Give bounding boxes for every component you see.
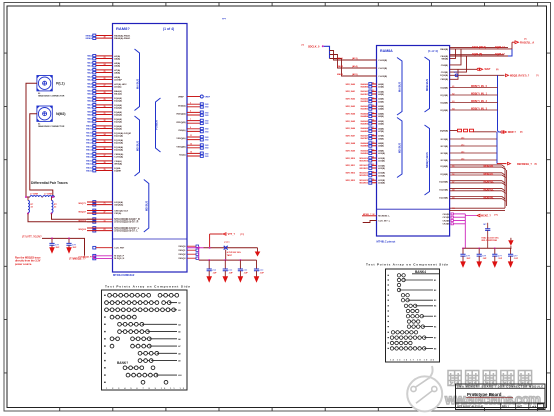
svg-text:DQ10(B): DQ10(B)	[439, 182, 448, 184]
svg-text:CS1(B): CS1(B)	[441, 72, 449, 74]
svg-text:MA16/: MA16/	[86, 169, 93, 172]
U1 left pin pair S?(A) DQ(31:16)-S?_L with external wire	[79, 227, 140, 233]
svg-text:MDB44L: MDB44L	[484, 196, 495, 200]
svg-text:L? 10NH: L? 10NH	[44, 194, 53, 196]
U1 right pin pair VDD(A)	[178, 103, 209, 109]
SMA edge connector P(L1)	[37, 76, 65, 98]
U1 left pin pair A9(A) pins 26	[87, 76, 122, 82]
wire VSSQ bus 2	[199, 259, 257, 261]
svg-text:.1UF: .1UF	[482, 258, 487, 260]
svg-text:C???: C???	[224, 242, 230, 244]
svg-text:RAM8A: RAM8A	[380, 49, 393, 53]
svg-text:MDB(?) BUS: MDB(?) BUS	[425, 152, 429, 168]
net label VTT 3.3V feed	[22, 236, 42, 239]
svg-text:38: 38	[104, 37, 106, 39]
decoupling capacitor C30 with ground	[206, 260, 217, 283]
U1 left pin pair LDQS(A) with external wire	[79, 201, 124, 207]
svg-text:SDR_MD0: SDR_MD0	[345, 158, 355, 160]
svg-text:VTT_?: VTT_?	[228, 233, 236, 236]
svg-text:MDQ71/: MDQ71/	[79, 203, 87, 205]
svg-text:MA4/: MA4/	[87, 83, 92, 86]
wire VSSQ bus 1 (magenta then dark red)	[187, 247, 258, 249]
svg-text:MA9/B9: MA9/B9	[361, 152, 369, 155]
svg-text:SMA EDGE CONNECTOR: SMA EDGE CONNECTOR	[38, 125, 65, 128]
svg-text:A3(B): A3(B)	[378, 100, 384, 103]
TB2 test point row 3	[388, 283, 401, 286]
svg-text:19: 19	[104, 220, 106, 222]
svg-text:MA4/B4: MA4/B4	[361, 115, 369, 118]
svg-text:A8(B): A8(B)	[378, 137, 384, 140]
svg-text:47: 47	[104, 211, 106, 214]
svg-text:MD2/B12: MD2/B12	[360, 175, 369, 177]
TB1 test point row 13	[104, 380, 168, 384]
svg-text:3RD OVERTONE: 3RD OVERTONE	[481, 240, 497, 242]
svg-text:MA9/: MA9/	[87, 120, 92, 123]
svg-text:MDQ63/: MDQ63/	[79, 229, 87, 231]
svg-text:A10/AP: A10/AP	[114, 78, 122, 81]
svg-text:SDR_MA0: SDR_MA0	[345, 83, 355, 86]
svg-text:MD1/B11: MD1/B11	[360, 168, 369, 170]
svg-text:UDQS(A): UDQS(A)	[114, 204, 123, 207]
svg-text:MA3/A3: MA3/A3	[361, 105, 369, 108]
TB1 test point row 11	[104, 366, 155, 370]
U1 right pin pair VSSQ(A)	[176, 135, 209, 141]
svg-text:.1UF: .1UF	[228, 273, 233, 275]
svg-text:3V3/: 3V3/	[205, 140, 210, 142]
svg-text:SDR_MA8: SDR_MA8	[345, 142, 355, 145]
svg-text:A7(B): A7(B)	[378, 130, 384, 133]
U2 bottom magenta pins MCKE	[443, 213, 466, 248]
svg-text:MDB43L: MDB43L	[484, 188, 495, 192]
svg-text:DQ3(A): DQ3(A)	[114, 106, 122, 109]
svg-text:3: 3	[190, 103, 191, 105]
svg-text:L? 10NH: L? 10NH	[30, 194, 39, 196]
svg-text:MA9/A9: MA9/A9	[361, 149, 369, 152]
capacitor C20 on bus	[224, 242, 241, 260]
svg-text:CLK0(B): CLK0(B)	[378, 60, 387, 62]
svg-text:MA3/: MA3/	[87, 78, 92, 81]
TB1 test point row 3	[104, 308, 180, 312]
U1 left pin pair DQML pins 39	[86, 167, 121, 173]
svg-text:A9: A9	[178, 360, 180, 363]
svg-text:5: 5	[190, 111, 191, 113]
svg-text:MA0/: MA0/	[87, 57, 92, 60]
svg-text:Prototype Board: Prototype Board	[467, 392, 502, 397]
svg-text:CKE(B): CKE(B)	[440, 79, 448, 81]
TB2 test point row 13	[388, 336, 437, 340]
off-page arrow REFRESH	[497, 162, 537, 166]
svg-text:MCKE80_L: MCKE80_L	[378, 216, 390, 218]
svg-text:NC3(B): NC3(B)	[441, 160, 449, 162]
U2 left pin pair MA2	[345, 97, 384, 103]
svg-text:26: 26	[104, 78, 106, 80]
off-page arrow WAIT	[450, 68, 499, 71]
U1 left pin pair DQ6(A) pins 32	[87, 118, 122, 124]
svg-text:MA6/: MA6/	[87, 97, 92, 100]
TB2 test point row 10	[388, 320, 420, 323]
svg-text:A11(A) /A12: A11(A) /A12	[114, 83, 127, 86]
svg-text:CS0(A): CS0(A)	[114, 160, 122, 163]
svg-text:63: 63	[104, 229, 106, 231]
svg-text:SMA EDGE CONNECTOR: SMA EDGE CONNECTOR	[38, 95, 65, 98]
U2 left pin pair MA0	[345, 83, 384, 89]
U2 fanout net label MA12	[337, 65, 387, 70]
svg-text:39: 39	[104, 169, 106, 171]
svg-text:MDB42L: MDB42L	[484, 180, 495, 184]
U1 left pin pair A7(A) pins 25	[87, 69, 120, 75]
wire from P(L1) down the left side	[26, 83, 37, 197]
svg-text:DQ0(B): DQ0(B)	[440, 87, 448, 89]
U1 MDQS differential pin pair (magenta wires)	[79, 254, 125, 260]
svg-text:(A15): (A15)	[352, 73, 358, 76]
svg-text:MA2/B2: MA2/B2	[361, 100, 369, 103]
power arrow into cap bus	[508, 238, 513, 249]
svg-text:(8): (8)	[520, 132, 523, 134]
svg-text:61: 61	[452, 86, 454, 88]
U1 left pin pair DQ4(A) pins 31	[87, 111, 122, 117]
svg-text:19: 19	[372, 142, 374, 144]
U2 left pin pair MD3	[345, 178, 385, 185]
svg-text:DQ11(B): DQ11(B)	[439, 190, 448, 192]
svg-text:A6(B): A6(B)	[378, 127, 384, 130]
svg-text:56: 56	[452, 174, 454, 176]
svg-text:3V3/: 3V3/	[205, 131, 210, 133]
svg-text:A8: A8	[178, 352, 180, 355]
svg-text:CK3(B): CK3(B)	[443, 224, 450, 226]
svg-text:A0(B): A0(B)	[378, 83, 384, 86]
TB2 test point row 2	[388, 278, 437, 282]
U1 left pin pair DQ0(A) pins 29	[87, 97, 122, 103]
svg-text:A6: A6	[178, 338, 180, 341]
svg-text:BANK?: BANK?	[117, 361, 128, 365]
svg-text:9: 9	[190, 127, 191, 129]
svg-text:DQMH: DQMH	[114, 170, 121, 172]
svg-text:15: 15	[372, 112, 374, 114]
U2 decoupling capacitor C40 with ground	[460, 248, 471, 268]
svg-text:.1UF: .1UF	[243, 273, 248, 275]
svg-text:VSSQ(B): VSSQ(B)	[176, 146, 185, 148]
svg-text:MA0/B0: MA0/B0	[361, 85, 369, 88]
svg-text:MT48LC16M16A2: MT48LC16M16A2	[113, 273, 135, 277]
TB1 BANK label	[117, 361, 128, 365]
svg-text:11: 11	[372, 83, 374, 85]
memory IC U2 RAM8A body	[377, 46, 450, 244]
svg-text:(??) VTT_?/3.3V?: (??) VTT_?/3.3V?	[22, 236, 42, 239]
svg-text:SDR_MA2: SDR_MA2	[345, 98, 355, 101]
svg-text:31: 31	[104, 113, 106, 115]
svg-text:REFRESH_?: REFRESH_?	[517, 163, 532, 166]
TB2 test point row 6	[388, 299, 437, 303]
svg-text:REV 1: REV 1	[502, 406, 510, 409]
svg-text:38: 38	[104, 162, 106, 164]
svg-text:A5(A): A5(A)	[114, 62, 120, 65]
blue vertical bus right of U2	[498, 75, 502, 132]
ground arrow at end of bus 1	[255, 248, 261, 257]
svg-text:MA7/A7: MA7/A7	[361, 135, 369, 138]
svg-text:MA4/A4: MA4/A4	[361, 112, 369, 115]
svg-text:(4): (4)	[535, 162, 538, 165]
svg-text:Test Points Array on Component: Test Points Array on Component Side	[366, 263, 448, 267]
svg-text:NC0(B): NC0(B)	[441, 139, 449, 141]
svg-text:SDR_MA1: SDR_MA1	[345, 90, 355, 93]
svg-text:58: 58	[452, 190, 454, 192]
svg-text:A6(B): A6(B)	[378, 123, 384, 126]
svg-text:DQ15(A): DQ15(A)	[114, 148, 123, 151]
svg-text:RAS0(A) /RAS1: RAS0(A) /RAS1	[114, 37, 131, 40]
svg-text:MD3/A13: MD3/A13	[360, 179, 369, 182]
TB2 test point row 15	[388, 347, 437, 351]
wire 3.3V bus	[42, 237, 85, 255]
U2 right staircase wires to RAS/CAS runs	[440, 49, 466, 81]
svg-text:7: 7	[190, 119, 191, 121]
svg-text:3V3/: 3V3/	[205, 148, 210, 150]
svg-text:TP?: TP?	[222, 19, 227, 21]
svg-text:MA16/: MA16/	[86, 167, 93, 170]
svg-text:CLK_FB?: CLK_FB?	[114, 248, 125, 250]
svg-text:NC1(B): NC1(B)	[441, 146, 449, 148]
svg-text:DQM(B): DQM(B)	[440, 130, 448, 132]
U2 left pin pair MA5	[345, 120, 384, 126]
svg-text:TANT: TANT	[227, 254, 233, 257]
svg-text:.1UF: .1UF	[498, 258, 503, 260]
svg-text:M DQS_N: M DQS_N	[114, 258, 124, 260]
svg-text:33: 33	[104, 127, 106, 129]
svg-text:35: 35	[104, 141, 106, 143]
svg-text:1 of 4: 1 of 4	[530, 406, 537, 409]
memory IC U1 RAM8 body	[113, 24, 188, 278]
svg-text:MDQ47/: MDQ47/	[79, 211, 87, 214]
svg-text:16: 16	[372, 120, 374, 122]
svg-text:CK0(B): CK0(B)	[443, 214, 450, 216]
svg-text:VSSQ(A): VSSQ(A)	[176, 137, 185, 140]
svg-text:MA8/B8: MA8/B8	[361, 145, 369, 148]
svg-text:DQ8(A): DQ8(A)	[114, 125, 122, 128]
TB2 test point row 9	[388, 315, 437, 319]
svg-text:30: 30	[104, 106, 106, 108]
svg-text:A8(A): A8(A)	[114, 71, 120, 74]
U1 left pin pair DQ14(A) pins 36	[86, 146, 123, 152]
svg-text:17: 17	[372, 127, 374, 129]
svg-text:MA7/: MA7/	[87, 104, 92, 107]
svg-text:CS1(A): CS1(A)	[114, 212, 121, 215]
svg-text:A10(B): A10(B)	[378, 157, 385, 160]
svg-text:23: 23	[104, 57, 106, 59]
svg-text:57: 57	[452, 182, 454, 184]
svg-text:SDR_MA6: SDR_MA6	[345, 127, 355, 130]
svg-text:(??): (??)	[240, 234, 244, 236]
U2 right wire CAS row	[440, 53, 508, 58]
svg-text:DQ1(A): DQ1(A)	[114, 99, 122, 102]
U2 left pin pair MA9	[345, 149, 385, 155]
svg-text:MCKE_?: MCKE_?	[481, 215, 491, 218]
U2 bracket data group	[397, 118, 402, 178]
TB1 test point row 10	[104, 359, 180, 363]
svg-text:XTAL CLOCK OSC: XTAL CLOCK OSC	[481, 237, 499, 240]
svg-text:MA15/: MA15/	[86, 162, 93, 165]
test point TP on MDQS wire and off-page arrow	[440, 72, 539, 77]
svg-text:VDD(A): VDD(A)	[178, 104, 186, 107]
U1 control bus bracket C	[144, 180, 149, 233]
svg-text:A8(B): A8(B)	[378, 142, 384, 145]
svg-text:A11(B): A11(B)	[378, 164, 385, 167]
svg-text:DQ0(A): DQ0(A)	[114, 97, 122, 100]
svg-text:SHT: SHT	[517, 406, 522, 409]
svg-text:MDB40L: MDB40L	[484, 164, 495, 168]
svg-text:VSSQ0: VSSQ0	[178, 246, 186, 248]
svg-text:CLK0(A): CLK0(A)	[114, 155, 123, 158]
svg-text:DQ84 (B): DQ84 (B)	[472, 53, 482, 56]
svg-text:MA3/B3: MA3/B3	[361, 108, 369, 111]
svg-text:14: 14	[372, 104, 374, 107]
U1 left pin pair CKE0(A) pins 37	[86, 153, 123, 159]
svg-text:NC2(B): NC2(B)	[441, 153, 449, 155]
svg-text:DQ8(B): DQ8(B)	[440, 166, 448, 168]
U2 left pin pair MA8	[345, 142, 384, 148]
svg-text:3V3/: 3V3/	[205, 107, 210, 109]
svg-text:MA6/: MA6/	[87, 99, 92, 102]
svg-text:A11(B): A11(B)	[378, 160, 385, 163]
svg-text:MA12/: MA12/	[86, 139, 93, 142]
svg-text:MA2/: MA2/	[87, 71, 92, 74]
TB1 test point row 7	[104, 337, 180, 341]
svg-text:(A13): (A13)	[352, 57, 358, 60]
U1 left pin pair BA0(A) pins 28	[87, 90, 122, 96]
svg-text:SDCLK_0: SDCLK_0	[308, 46, 320, 49]
svg-text:A13(B): A13(B)	[378, 174, 385, 177]
svg-text:MDB(?)_ML_2: MDB(?)_ML_2	[471, 100, 488, 103]
svg-text:MA9/: MA9/	[87, 118, 92, 121]
svg-text:.1UF: .1UF	[212, 273, 217, 275]
wire from N(M2) down and across	[30, 114, 53, 197]
shunt inductor L3 (vertical left)	[27, 197, 34, 215]
svg-text:(1 of 4): (1 of 4)	[428, 49, 438, 53]
U2 left pin pair MD0	[345, 157, 385, 163]
svg-text:SIZE B DOC 45-2311-01: SIZE B DOC 45-2311-01	[457, 406, 484, 409]
svg-text:MA2/A2: MA2/A2	[361, 98, 369, 101]
TB1 test point row 12	[104, 373, 181, 377]
TB2 test point row 4	[388, 288, 437, 292]
svg-text:DQ7(A): DQ7(A)	[114, 120, 122, 123]
svg-text:A10: A10	[178, 374, 181, 377]
U1 left pin pair CKE1(A) /CLK with external wire	[79, 209, 129, 215]
svg-text:MA1/B1: MA1/B1	[361, 93, 369, 96]
svg-text:(?): (?)	[302, 44, 305, 46]
watermark chinese characters	[448, 371, 532, 387]
svg-text:28: 28	[104, 92, 106, 94]
U2 left pin pair MA6	[345, 127, 384, 133]
svg-text:SDR_MD3: SDR_MD3	[345, 180, 355, 182]
svg-text:MA0/A0: MA0/A0	[361, 83, 369, 86]
test point label above U1	[222, 19, 227, 21]
svg-text:MA13/: MA13/	[86, 148, 93, 151]
U2 bottom-left MCKE pin	[362, 214, 390, 218]
svg-text:(8): (8)	[496, 69, 499, 71]
U2 bracket address group	[397, 58, 402, 116]
svg-text:MA14/: MA14/	[86, 155, 93, 158]
U2 bottom-left elbow wire	[363, 221, 391, 223]
title block	[456, 384, 546, 410]
svg-text:A7: A7	[178, 345, 180, 348]
TB1 test point row 6	[104, 330, 180, 334]
svg-text:22: 22	[372, 164, 374, 166]
svg-text:A5(B): A5(B)	[378, 120, 384, 123]
U2 fanout net label MA13	[337, 73, 387, 78]
svg-text:DQ1(B): DQ1(B)	[440, 95, 448, 97]
svg-text:SDR_MA7: SDR_MA7	[345, 135, 355, 138]
U2 right wire RAS row (long run to top right)	[440, 42, 512, 56]
svg-text:MA12/: MA12/	[86, 141, 93, 144]
svg-text:MA BUS: MA BUS	[398, 82, 402, 92]
svg-text:MA11: MA11	[337, 57, 343, 60]
TB1 test point row 4	[104, 315, 136, 319]
TB1 test point row 1	[104, 293, 178, 297]
svg-text:37: 37	[104, 155, 106, 157]
U1 left pin pair DQ2(A) pins 30	[87, 104, 122, 110]
svg-text:B3: B3	[434, 300, 436, 302]
U2 resistor network row	[440, 129, 523, 134]
svg-text:A13(A): A13(A)	[114, 85, 121, 88]
Differential Pair Traces label	[31, 181, 68, 185]
U1 clock pin MCLK row	[93, 246, 125, 249]
svg-text:MD1/A11: MD1/A11	[360, 164, 369, 167]
svg-text:A3: A3	[178, 309, 180, 312]
TB2 test point row 11	[388, 325, 437, 329]
svg-text:POWER: POWER	[154, 120, 158, 130]
svg-text:VSSQ1: VSSQ1	[178, 250, 186, 252]
U2 left pin pair MD2	[345, 171, 385, 177]
svg-text:DQ11(A): DQ11(A)	[114, 134, 123, 137]
svg-text:24: 24	[104, 63, 106, 66]
svg-text:23: 23	[372, 172, 374, 174]
series inductor L1 (horizontal) with junction dots	[25, 194, 42, 199]
svg-text:34: 34	[104, 133, 106, 136]
crystal clock cap N1	[481, 223, 499, 249]
svg-text:MA5/B5: MA5/B5	[361, 122, 369, 125]
TB1 test point row 5	[104, 322, 181, 326]
svg-text:(?): (?)	[536, 75, 539, 77]
svg-text:(??): (??)	[494, 215, 498, 217]
svg-text:(1 of 4): (1 of 4)	[163, 27, 174, 31]
TB2 test point row 7	[388, 304, 437, 308]
svg-text:A1: A1	[38, 92, 40, 95]
svg-text:MA8/: MA8/	[87, 113, 92, 116]
svg-text:A1(B): A1(B)	[378, 90, 384, 93]
TB2 test point row 8	[388, 309, 419, 312]
svg-text:MA8/: MA8/	[87, 111, 92, 114]
U2 left pin pair MA1	[345, 90, 384, 96]
svg-text:3V3/: 3V3/	[205, 115, 210, 117]
svg-text:SMA MEMORY BOARD / DDR CONNECT: SMA MEMORY BOARD / DDR CONNECTOR MODULE	[457, 386, 543, 389]
svg-text:(??)/MDQS_??: (??)/MDQS_??	[69, 257, 86, 260]
U2 decoupling cap bus	[462, 247, 511, 249]
U2 left pin pair MA3	[345, 104, 384, 111]
svg-text:CK1(B): CK1(B)	[443, 217, 450, 219]
svg-text:MRAS/: MRAS/	[86, 34, 93, 37]
svg-text:RAM8?: RAM8?	[116, 26, 130, 31]
svg-text:MDQS_RA?(?)_?: MDQS_RA?(?)_?	[510, 74, 530, 77]
svg-text:DQS(B): DQS(B)	[440, 75, 448, 77]
svg-text:CS0(B): CS0(B)	[441, 65, 449, 67]
svg-text:MD3/B13: MD3/B13	[360, 183, 369, 185]
right test points array title	[366, 263, 448, 267]
svg-text:MA7/: MA7/	[87, 106, 92, 109]
off-page arrow MCKE label	[465, 214, 498, 217]
svg-text:P(L1): P(L1)	[56, 82, 64, 86]
svg-text:DQ9(A): DQ9(A)	[114, 127, 122, 130]
svg-text:MA6/B6: MA6/B6	[361, 130, 369, 133]
svg-text:MA13/: MA13/	[86, 146, 93, 149]
test point array TB2 BANK4 frame	[386, 269, 440, 362]
